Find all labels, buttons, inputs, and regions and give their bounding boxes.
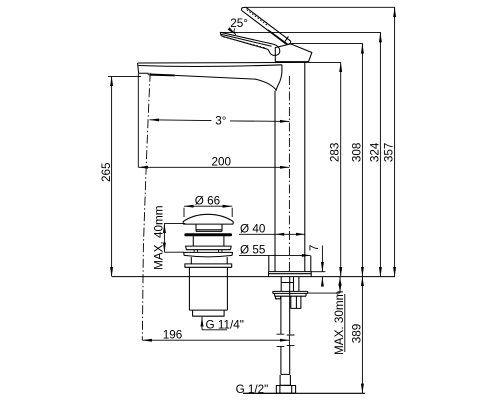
dim MAX30 extension xyxy=(308,292,340,294)
raised handle: end tick xyxy=(285,36,288,41)
raised handle: inner line xyxy=(268,30,287,44)
handle at rest: knurl hatch xyxy=(224,37,267,48)
dim O66 ext ticks xyxy=(184,208,232,217)
drain body lower xyxy=(191,257,227,264)
dim 308 top arrow xyxy=(361,44,363,54)
svg-text:7: 7 xyxy=(308,245,321,252)
svg-text:3°: 3° xyxy=(215,115,226,128)
mounting nut xyxy=(291,296,301,308)
drain tailpiece xyxy=(189,267,227,310)
handle at rest: tip xyxy=(220,32,221,36)
svg-text:25°: 25° xyxy=(230,17,248,30)
svg-text:357: 357 xyxy=(382,143,395,163)
hose collar xyxy=(280,375,290,385)
dim O40 arrows xyxy=(275,233,304,236)
aerator xyxy=(139,73,149,75)
bottom reference line xyxy=(243,392,365,394)
handle at rest: pivot knuckle xyxy=(268,44,280,55)
dim 389 line xyxy=(361,277,363,394)
svg-text:Ø 66: Ø 66 xyxy=(195,194,220,207)
dim 7 upper arrow xyxy=(321,246,323,272)
dim MAX40 top ext xyxy=(164,222,185,224)
svg-text:324: 324 xyxy=(368,142,381,162)
faucet column right edge xyxy=(304,63,306,272)
threaded shank xyxy=(281,277,299,291)
svg-text:MAX. 40mm: MAX. 40mm xyxy=(153,206,166,270)
dim O55 arrow xyxy=(302,254,311,257)
base shoulder cylinder left xyxy=(268,256,270,272)
raised handle: bottom edge xyxy=(242,11,286,44)
G1/2 hex nut xyxy=(276,386,295,394)
drain neck xyxy=(196,224,222,231)
dim 3deg line left xyxy=(150,119,212,122)
dim 324 top arrow xyxy=(379,33,381,43)
handle at rest: mid line xyxy=(221,34,272,46)
svg-text:283: 283 xyxy=(328,143,341,163)
G11/4 leader xyxy=(201,317,203,330)
dim 357 extension+line xyxy=(247,7,395,276)
svg-text:308: 308 xyxy=(350,143,363,163)
dim MAX30 line xyxy=(339,277,341,294)
dim O66 line xyxy=(184,205,232,207)
drain ring 3 xyxy=(184,252,233,256)
faucet centerline xyxy=(288,76,290,272)
drain flange xyxy=(185,264,232,267)
dim 3deg line right xyxy=(230,120,290,123)
supply hose lower xyxy=(281,346,290,374)
drain seal ring xyxy=(185,234,232,236)
MAX30 text underline xyxy=(344,294,346,352)
dim 196 line xyxy=(142,339,289,341)
dim 283 extension xyxy=(309,61,341,63)
spout reach extension line xyxy=(137,73,139,167)
raised handle: end cap xyxy=(286,41,291,44)
dim MAX40 bottom ext xyxy=(164,251,184,253)
raised handle: knurl hatch xyxy=(247,10,269,27)
drain body upper xyxy=(193,236,224,246)
label 3deg xyxy=(214,115,231,128)
G1/2 underline xyxy=(243,392,276,394)
dim 200 line xyxy=(138,166,289,168)
spout throat inner curve xyxy=(276,65,282,91)
drain ring 2 xyxy=(186,246,232,250)
svg-text:389: 389 xyxy=(351,324,364,344)
dim 196 right stub xyxy=(288,336,290,346)
spout underside xyxy=(175,75,276,91)
dim 283 line xyxy=(340,62,342,276)
dim MAX40 line xyxy=(163,223,165,252)
drain dome cap xyxy=(183,214,233,224)
svg-text:G 1/2": G 1/2" xyxy=(236,383,269,396)
base shoulder cylinder right xyxy=(310,256,312,272)
raised handle: top edge xyxy=(246,7,291,41)
mounting washer xyxy=(273,291,308,296)
svg-text:G 11/4": G 11/4" xyxy=(206,319,244,332)
raised handle: tip cap xyxy=(242,7,246,10)
svg-text:200: 200 xyxy=(212,156,232,169)
base flange xyxy=(269,272,312,277)
dim O40 label line xyxy=(239,233,305,235)
25deg leader arc xyxy=(234,29,236,35)
handle at rest: top edge xyxy=(220,32,273,44)
dim O55 label line xyxy=(239,254,311,256)
svg-text:265: 265 xyxy=(100,162,113,182)
dim 7 lower arrow xyxy=(321,277,323,287)
supply hose upper xyxy=(281,277,290,334)
drain thread ticks xyxy=(194,250,222,252)
handle at rest: bottom edge xyxy=(221,36,268,50)
dim 265 line xyxy=(111,76,113,276)
dim 7 extension xyxy=(311,271,325,273)
G11/4 underline xyxy=(202,329,227,331)
spout left end edge xyxy=(138,63,139,73)
dim 308 extension+line xyxy=(291,44,363,277)
dim 324 extension+line xyxy=(220,32,380,276)
svg-text:Ø 40: Ø 40 xyxy=(240,222,266,235)
spout inner top edge xyxy=(138,65,282,67)
water stream centerline xyxy=(142,73,150,340)
washer notch xyxy=(275,296,280,299)
faucet column left edge xyxy=(274,91,276,272)
countertop line xyxy=(112,276,395,278)
cartridge cover wedge xyxy=(275,44,312,62)
svg-text:Ø 55: Ø 55 xyxy=(240,244,266,257)
drain tailpiece step xyxy=(193,310,225,316)
hose break marks xyxy=(277,334,295,346)
dim 357 top arrow xyxy=(394,8,396,18)
dim 265 extension xyxy=(108,75,141,77)
svg-text:MAX. 30mm: MAX. 30mm xyxy=(333,291,346,355)
spout top edge / body top line xyxy=(138,61,309,64)
svg-text:196: 196 xyxy=(163,329,183,342)
